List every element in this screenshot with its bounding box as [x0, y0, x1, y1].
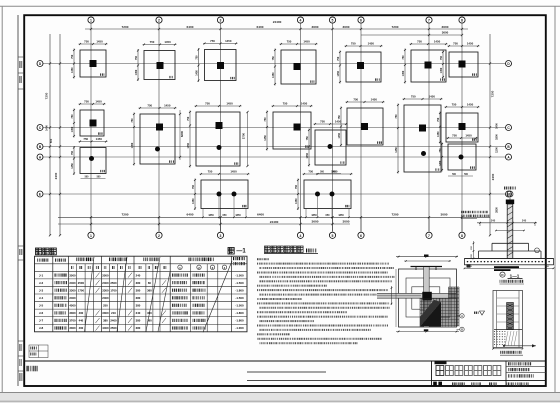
svg-text:500: 500 — [49, 138, 53, 143]
svg-text:1450: 1450 — [467, 103, 474, 107]
svg-text:3600: 3600 — [442, 25, 449, 29]
svg-text:750: 750 — [287, 40, 292, 44]
svg-text:380: 380 — [136, 319, 141, 323]
svg-text:—1: —1 — [236, 249, 246, 255]
svg-text:750: 750 — [452, 103, 457, 107]
svg-text:-1.500: -1.500 — [235, 296, 244, 300]
svg-text:250: 250 — [103, 304, 108, 308]
svg-text:J-1: J-1 — [39, 273, 44, 277]
svg-text:J-2: J-2 — [39, 281, 44, 285]
svg-text:1—1: 1—1 — [510, 273, 520, 278]
svg-text:1850: 1850 — [235, 214, 241, 217]
svg-text:1450: 1450 — [295, 198, 298, 204]
svg-text:-1.800: -1.800 — [235, 319, 244, 323]
svg-text:1450: 1450 — [467, 42, 474, 46]
svg-text:-1.000: -1.000 — [235, 326, 244, 330]
svg-text:3500: 3500 — [102, 273, 109, 277]
svg-text:750: 750 — [439, 148, 442, 153]
svg-text:750: 750 — [71, 54, 74, 59]
svg-text:1450: 1450 — [395, 147, 398, 153]
svg-text:2: 2 — [158, 19, 160, 23]
svg-text:5: 5 — [332, 19, 334, 23]
svg-text:750: 750 — [84, 40, 89, 44]
svg-text:3300: 3300 — [69, 326, 76, 330]
svg-text:1400: 1400 — [495, 123, 499, 129]
svg-text:J-3: J-3 — [39, 288, 44, 292]
svg-text:1450: 1450 — [264, 135, 267, 141]
svg-text:1450: 1450 — [71, 163, 74, 169]
svg-text:750: 750 — [131, 118, 134, 123]
svg-text:3: 3 — [220, 19, 222, 23]
svg-text:7200: 7200 — [392, 25, 399, 29]
svg-text:380: 380 — [136, 326, 141, 330]
svg-text:1450: 1450 — [96, 137, 103, 141]
svg-text:5: 5 — [332, 234, 334, 238]
svg-text:1450: 1450 — [164, 40, 171, 44]
svg-text:750: 750 — [205, 102, 210, 106]
svg-text:1450: 1450 — [96, 40, 103, 44]
svg-text:750: 750 — [320, 120, 325, 124]
svg-text:380: 380 — [136, 304, 141, 308]
svg-text:7: 7 — [428, 19, 430, 23]
svg-text:7200: 7200 — [392, 212, 399, 216]
svg-text:8: 8 — [461, 234, 463, 238]
svg-text:6400: 6400 — [257, 25, 264, 29]
svg-text:4: 4 — [300, 19, 302, 23]
svg-text:2400: 2400 — [102, 296, 109, 300]
svg-text:1450: 1450 — [187, 142, 190, 148]
svg-text:2500: 2500 — [78, 281, 85, 285]
svg-text:1700: 1700 — [110, 288, 117, 292]
svg-text:6: 6 — [360, 19, 362, 23]
svg-text:3600: 3600 — [312, 219, 319, 223]
svg-text:240: 240 — [136, 273, 141, 277]
svg-text:3500: 3500 — [69, 273, 76, 277]
svg-text:1700: 1700 — [78, 288, 85, 292]
svg-text:1450: 1450 — [71, 67, 74, 73]
svg-text:J-7: J-7 — [39, 319, 44, 323]
svg-text:650: 650 — [223, 214, 228, 217]
svg-text:24400: 24400 — [270, 220, 279, 224]
svg-text:B: B — [461, 328, 463, 332]
svg-text:380: 380 — [136, 288, 141, 292]
svg-text:440: 440 — [79, 319, 84, 323]
svg-text:3300: 3300 — [69, 311, 76, 315]
svg-text:J-5: J-5 — [39, 304, 44, 308]
svg-text:750: 750 — [453, 42, 458, 46]
svg-text:380: 380 — [136, 281, 141, 285]
svg-text:750: 750 — [195, 55, 198, 60]
svg-text:1850: 1850 — [338, 214, 344, 217]
svg-text:210: 210 — [111, 311, 116, 315]
svg-text:J-8: J-8 — [39, 326, 44, 330]
svg-text:1450: 1450 — [437, 131, 440, 137]
svg-text:1450: 1450 — [192, 198, 195, 204]
svg-text:A: A — [461, 314, 463, 318]
svg-text:3600: 3600 — [442, 31, 449, 35]
svg-text:7200: 7200 — [491, 90, 495, 97]
svg-text:3600: 3600 — [312, 25, 319, 29]
svg-text:380: 380 — [103, 319, 108, 323]
svg-text:750: 750 — [83, 137, 88, 141]
svg-text:380: 380 — [136, 296, 141, 300]
svg-text:2500: 2500 — [110, 326, 117, 330]
svg-text:750: 750 — [440, 55, 443, 60]
svg-text:2: 2 — [158, 234, 160, 238]
svg-text:1850: 1850 — [208, 214, 214, 217]
svg-text:750: 750 — [351, 42, 356, 46]
svg-text:6400: 6400 — [187, 25, 194, 29]
svg-text:60: 60 — [148, 281, 152, 285]
svg-text:1450: 1450 — [225, 39, 232, 43]
svg-text:2830: 2830 — [495, 207, 499, 213]
svg-text:1450: 1450 — [71, 126, 74, 132]
svg-text:-1.500: -1.500 — [235, 304, 244, 308]
svg-text:6400: 6400 — [187, 212, 194, 216]
svg-text:1450: 1450 — [337, 70, 340, 76]
svg-text:750: 750 — [437, 117, 440, 122]
svg-text:1450: 1450 — [465, 134, 472, 138]
svg-text:750: 750 — [264, 117, 267, 122]
svg-text:2500: 2500 — [110, 281, 117, 285]
svg-text:3000: 3000 — [343, 219, 350, 223]
svg-text:2400: 2400 — [110, 319, 117, 323]
svg-text:2400: 2400 — [69, 296, 76, 300]
svg-text:1: 1 — [90, 234, 92, 238]
svg-text:750: 750 — [71, 114, 74, 119]
svg-text:7200: 7200 — [122, 25, 129, 29]
svg-text:2400: 2400 — [54, 172, 58, 179]
svg-text:750: 750 — [272, 56, 275, 61]
svg-text:3000: 3000 — [343, 25, 350, 29]
svg-text:4500: 4500 — [69, 304, 76, 308]
svg-text:J-4: J-4 — [39, 296, 44, 300]
svg-text:1450: 1450 — [368, 42, 375, 46]
svg-text:1450: 1450 — [164, 104, 171, 108]
svg-text:240: 240 — [491, 218, 496, 222]
svg-text:750: 750 — [353, 98, 358, 102]
svg-text:1800: 1800 — [495, 134, 499, 140]
svg-text:750: 750 — [308, 170, 313, 174]
svg-text:750: 750 — [84, 100, 89, 104]
svg-text:750: 750 — [337, 56, 340, 61]
svg-text:750: 750 — [452, 134, 457, 138]
svg-text:750: 750 — [283, 102, 288, 106]
svg-text:1: 1 — [90, 19, 92, 23]
svg-text:750: 750 — [187, 116, 190, 121]
svg-text:7200: 7200 — [122, 212, 129, 216]
svg-text:4400: 4400 — [102, 326, 109, 330]
svg-text:1450: 1450 — [439, 160, 442, 166]
svg-text:750: 750 — [147, 104, 152, 108]
svg-text:J-6: J-6 — [39, 311, 44, 315]
svg-text:1450: 1450 — [338, 132, 341, 138]
svg-text:1450: 1450 — [306, 152, 309, 158]
svg-text:-1.500: -1.500 — [235, 273, 244, 277]
svg-text:24400: 24400 — [273, 20, 282, 24]
svg-text:1450: 1450 — [135, 69, 138, 75]
svg-text:3300: 3300 — [102, 311, 109, 315]
svg-text:1450: 1450 — [95, 100, 102, 104]
svg-text:750: 750 — [192, 184, 195, 189]
svg-text:750: 750 — [411, 95, 416, 99]
svg-text:-1.500: -1.500 — [235, 281, 244, 285]
svg-text:750: 750 — [295, 184, 298, 189]
svg-text:2400: 2400 — [69, 281, 76, 285]
svg-text:3000: 3000 — [441, 212, 448, 216]
svg-text:400: 400 — [79, 311, 84, 315]
svg-text:1450: 1450 — [303, 40, 310, 44]
svg-text:1450: 1450 — [331, 170, 338, 174]
svg-text:1450: 1450 — [272, 72, 275, 78]
svg-text:-1.800: -1.800 — [235, 288, 244, 292]
svg-text:2700: 2700 — [242, 132, 246, 139]
svg-text:8: 8 — [461, 19, 463, 23]
svg-text:750: 750 — [306, 136, 309, 141]
svg-text:750: 750 — [150, 40, 155, 44]
svg-text:650: 650 — [326, 214, 331, 217]
svg-text:750: 750 — [402, 55, 405, 60]
svg-text:360: 360 — [147, 288, 152, 292]
svg-text:4: 4 — [300, 234, 302, 238]
svg-text:1450: 1450 — [402, 70, 405, 76]
svg-text:1450: 1450 — [131, 142, 134, 148]
svg-text:750: 750 — [71, 150, 74, 155]
svg-text:1450: 1450 — [440, 67, 443, 73]
svg-text:750: 750 — [338, 115, 341, 120]
svg-text:3: 3 — [220, 234, 222, 238]
svg-text:6400: 6400 — [257, 212, 264, 216]
svg-text:7: 7 — [428, 234, 430, 238]
svg-text:3300: 3300 — [102, 288, 109, 292]
svg-text:750: 750 — [417, 40, 422, 44]
svg-text:1200: 1200 — [495, 147, 499, 153]
svg-text:1450: 1450 — [429, 95, 436, 99]
svg-text:1400: 1400 — [45, 125, 49, 131]
svg-text:3300: 3300 — [69, 288, 76, 292]
svg-text:-1.800: -1.800 — [235, 311, 244, 315]
svg-text:750: 750 — [210, 39, 215, 43]
svg-text:750: 750 — [208, 170, 213, 174]
svg-text:7200: 7200 — [45, 92, 49, 99]
svg-text:1450: 1450 — [195, 70, 198, 76]
svg-text:1850: 1850 — [311, 214, 317, 217]
svg-text:1450: 1450 — [371, 98, 378, 102]
svg-text:8: 8 — [509, 193, 511, 197]
svg-text:750: 750 — [395, 114, 398, 119]
svg-text:1450: 1450 — [230, 170, 237, 174]
svg-text:2400: 2400 — [102, 281, 109, 285]
svg-text:6: 6 — [360, 234, 362, 238]
svg-text:1450: 1450 — [434, 40, 441, 44]
svg-text:750: 750 — [135, 55, 138, 60]
svg-text:8200: 8200 — [180, 130, 184, 137]
svg-text:1450: 1450 — [226, 102, 233, 106]
svg-text:400: 400 — [79, 326, 84, 330]
svg-text:3700: 3700 — [69, 319, 76, 323]
svg-text:240: 240 — [136, 311, 141, 315]
svg-text:1450: 1450 — [301, 102, 308, 106]
svg-text:2400: 2400 — [491, 173, 495, 180]
svg-text:240: 240 — [522, 218, 527, 222]
svg-text:E: E — [39, 193, 41, 197]
